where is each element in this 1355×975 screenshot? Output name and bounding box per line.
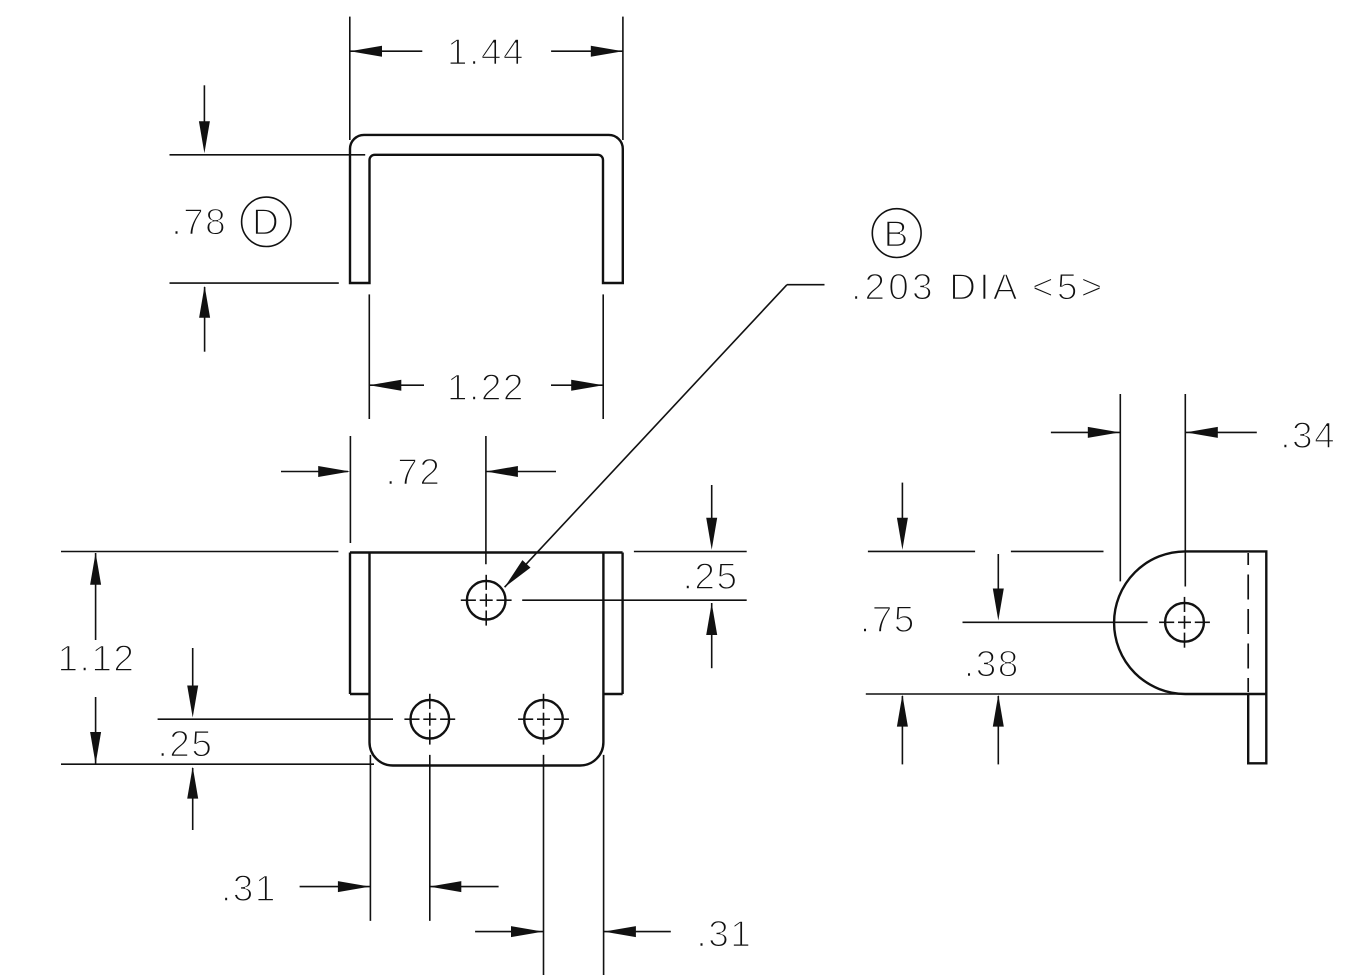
svg-text:1.44: 1.44 xyxy=(447,32,525,73)
svg-text:.203 DIA <5>: .203 DIA <5> xyxy=(851,266,1105,307)
svg-text:1.22: 1.22 xyxy=(447,367,525,408)
svg-text:.31: .31 xyxy=(696,913,752,954)
svg-text:.25: .25 xyxy=(683,556,739,597)
svg-text:1.12: 1.12 xyxy=(57,638,135,679)
svg-text:D: D xyxy=(252,202,280,243)
svg-text:.38: .38 xyxy=(964,643,1020,684)
svg-text:.25: .25 xyxy=(158,724,214,765)
svg-text:.78: .78 xyxy=(171,202,227,243)
svg-text:B: B xyxy=(884,214,910,255)
svg-text:.34: .34 xyxy=(1280,415,1336,456)
svg-text:.31: .31 xyxy=(221,868,277,909)
svg-text:.75: .75 xyxy=(860,599,916,640)
svg-text:.72: .72 xyxy=(386,452,442,493)
